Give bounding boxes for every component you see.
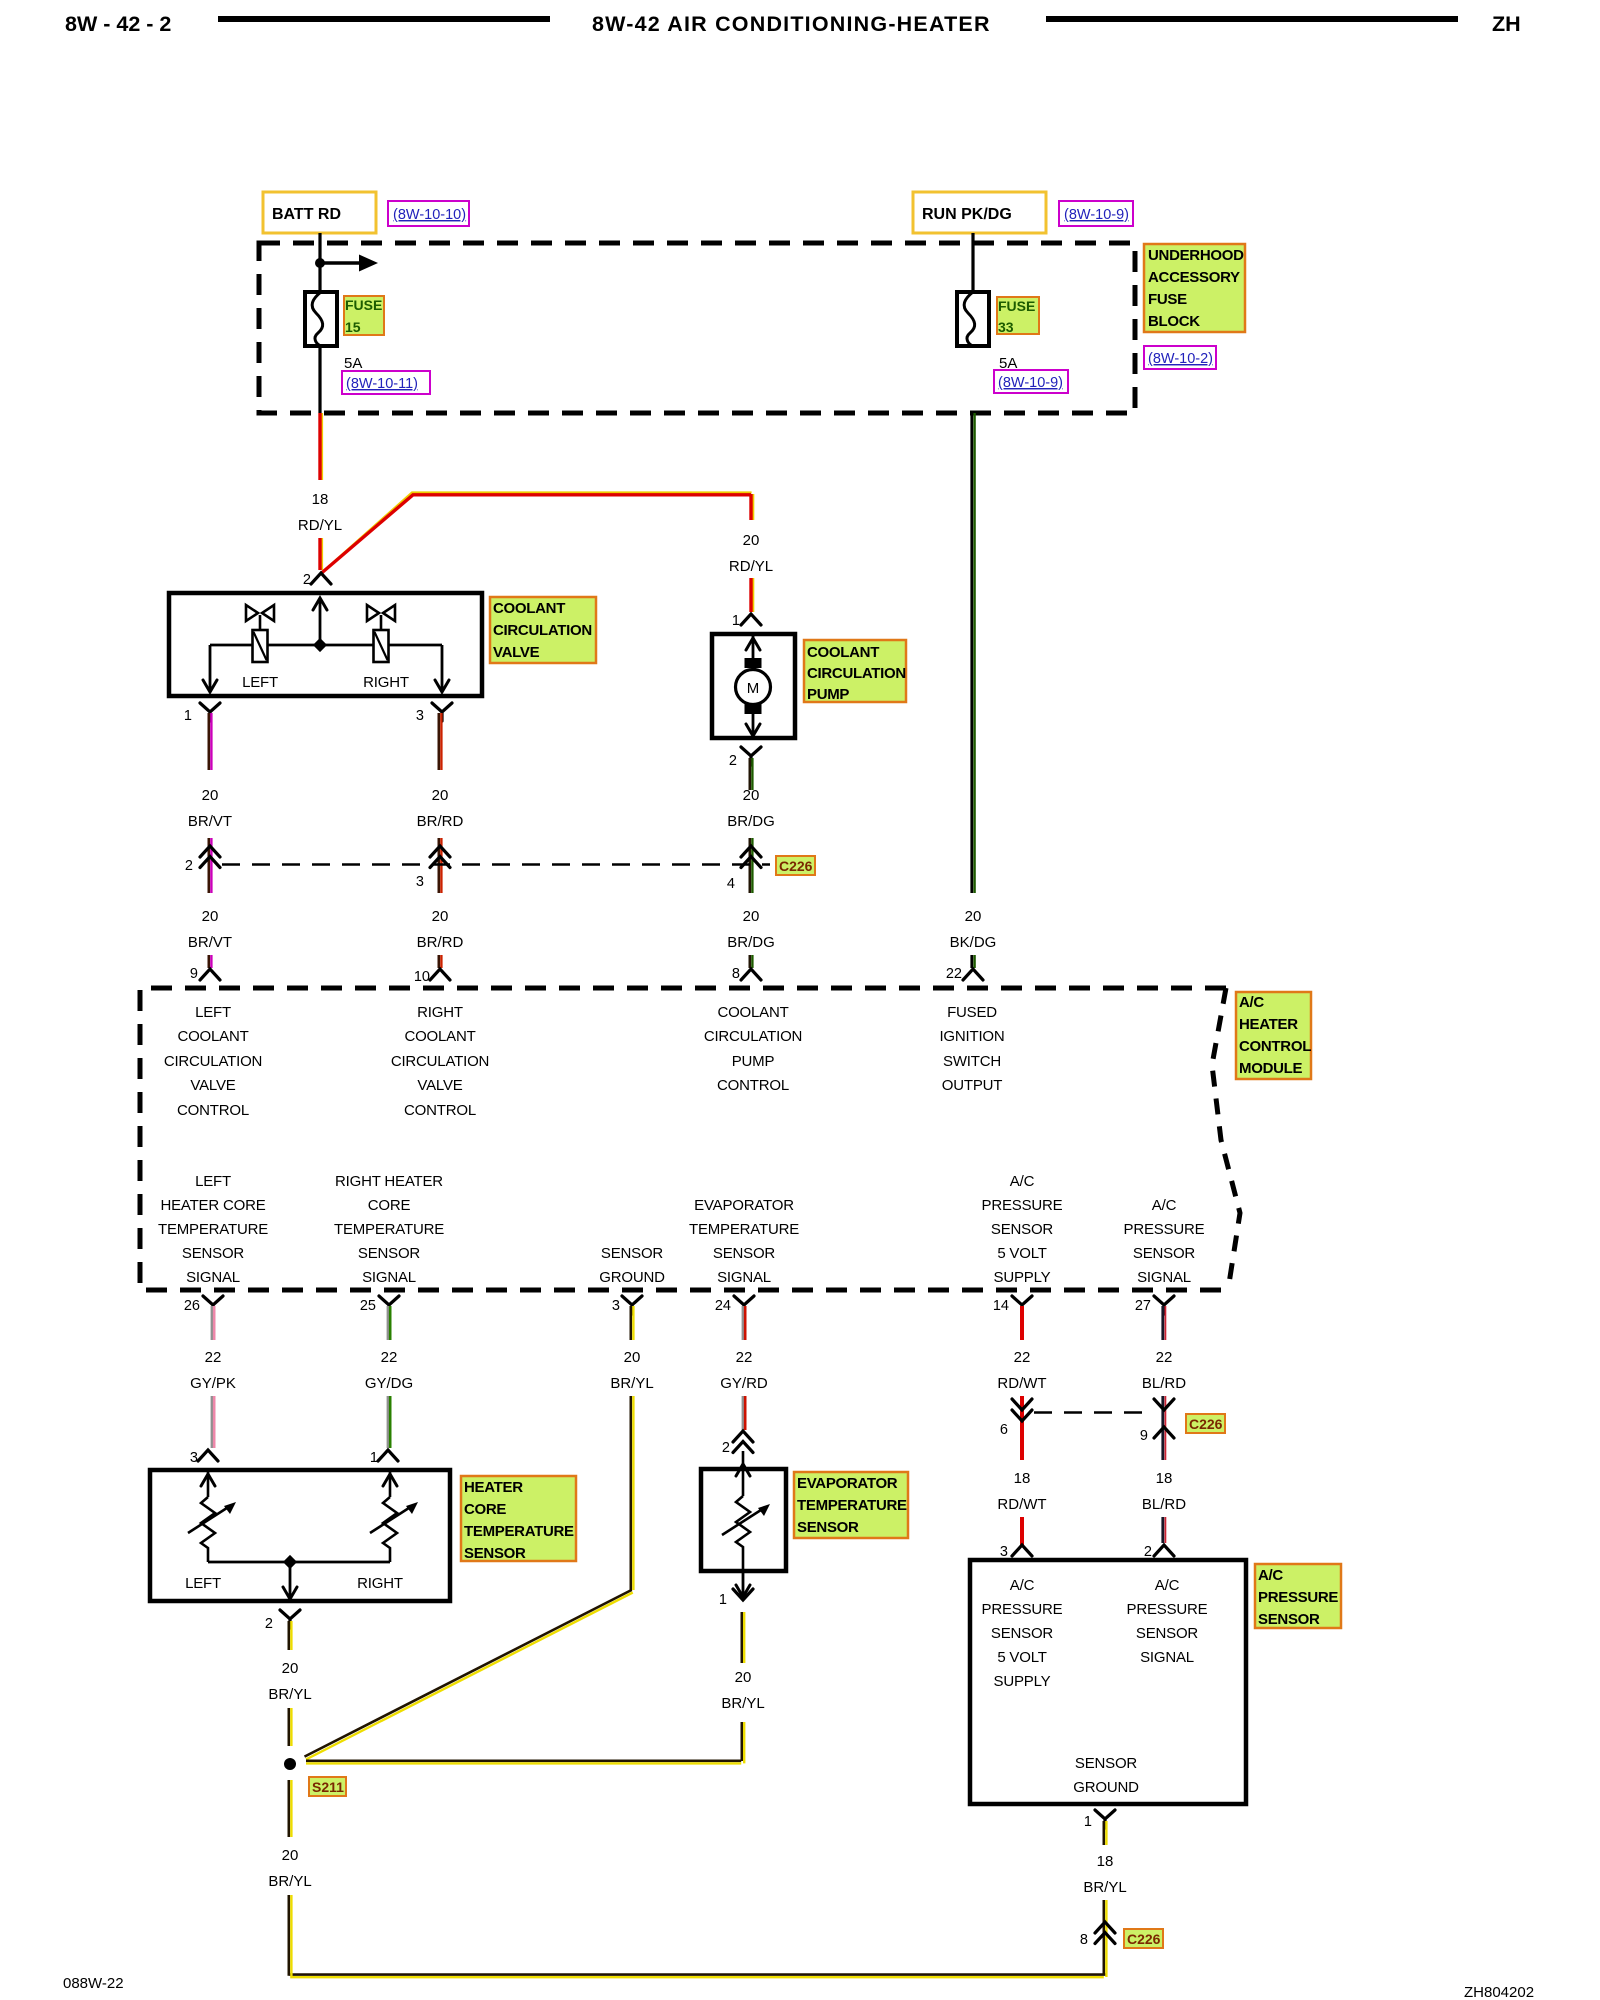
svg-text:20: 20 xyxy=(202,787,219,804)
svg-text:BR/DG: BR/DG xyxy=(727,934,775,951)
svg-text:15: 15 xyxy=(345,319,361,335)
svg-text:1: 1 xyxy=(184,708,192,724)
svg-text:FUSE: FUSE xyxy=(998,298,1035,314)
connector C226 pin 6 xyxy=(1000,1399,1032,1438)
svg-text:SENSOR: SENSOR xyxy=(1075,1755,1138,1772)
connector C226 pin 3 xyxy=(416,846,450,890)
pin 2 pump connector xyxy=(729,747,761,769)
link (8W-10-2) xyxy=(1144,346,1216,369)
label FUSE 33 xyxy=(997,297,1039,335)
svg-text:ZH: ZH xyxy=(1492,12,1521,36)
svg-text:BR/RD: BR/RD xyxy=(417,934,464,951)
label C226 pin 8 xyxy=(1124,1929,1163,1948)
svg-text:1: 1 xyxy=(719,1592,727,1608)
svg-text:RIGHT: RIGHT xyxy=(417,1004,463,1021)
svg-text:33: 33 xyxy=(998,319,1014,335)
svg-text:SENSOR: SENSOR xyxy=(358,1245,421,1262)
svg-text:CIRCULATION: CIRCULATION xyxy=(704,1028,802,1045)
svg-text:PRESSURE: PRESSURE xyxy=(1127,1601,1208,1618)
heater sensor left resistor xyxy=(188,1470,236,1562)
module pin text col4 bottom xyxy=(689,1197,799,1286)
svg-text:SIGNAL: SIGNAL xyxy=(362,1269,416,1286)
fuse F33 xyxy=(957,292,989,346)
svg-text:BR/RD: BR/RD xyxy=(417,813,464,830)
svg-text:LEFT: LEFT xyxy=(195,1004,231,1021)
label EVAPORATOR TEMPERATURE SENSOR xyxy=(794,1472,908,1538)
svg-text:CIRCULATION: CIRCULATION xyxy=(807,665,906,682)
svg-text:FUSED: FUSED xyxy=(947,1004,997,1021)
pin 1 pump connector xyxy=(732,613,761,629)
svg-text:8: 8 xyxy=(1080,1932,1088,1948)
module pin text col1 top xyxy=(164,1004,262,1119)
svg-text:RD/YL: RD/YL xyxy=(729,558,773,575)
heater sensor internal wiring xyxy=(208,1555,390,1599)
label 20 BR/RD xyxy=(417,787,464,830)
svg-text:EVAPORATOR: EVAPORATOR xyxy=(694,1197,794,1214)
pin 10 module connector xyxy=(414,969,450,985)
module pin text col3 bottom xyxy=(599,1245,665,1286)
svg-text:BR/YL: BR/YL xyxy=(721,1695,764,1712)
pin 24 module connector xyxy=(715,1296,754,1314)
svg-text:2: 2 xyxy=(185,858,193,874)
svg-text:20: 20 xyxy=(432,787,449,804)
svg-text:OUTPUT: OUTPUT xyxy=(942,1077,1003,1094)
wire 20 BR/YL splice to bottom xyxy=(268,1780,1106,1977)
pin 3 module connector xyxy=(612,1296,642,1314)
svg-text:EVAPORATOR: EVAPORATOR xyxy=(797,1475,898,1492)
svg-text:COOLANT: COOLANT xyxy=(177,1028,248,1045)
svg-text:18: 18 xyxy=(1014,1470,1031,1487)
module pin text col3 top xyxy=(704,1004,802,1094)
svg-text:20: 20 xyxy=(965,908,982,925)
connector C226 pin 8 xyxy=(1080,1922,1115,1948)
svg-text:BL/RD: BL/RD xyxy=(1142,1375,1186,1392)
wire 22 GY/DG xyxy=(365,1306,413,1448)
svg-text:18: 18 xyxy=(1097,1853,1114,1870)
wire 20 RD/YL branch to pump xyxy=(321,493,753,613)
svg-text:SENSOR: SENSOR xyxy=(601,1245,664,1262)
svg-text:COOLANT: COOLANT xyxy=(717,1004,788,1021)
svg-text:HEATER: HEATER xyxy=(1239,1016,1298,1033)
wire 20 BR/DG upper xyxy=(750,758,753,893)
svg-text:4: 4 xyxy=(727,876,735,892)
wire 22 RD/WT upper xyxy=(997,1306,1046,1437)
pin 1 pressure sensor connector xyxy=(1084,1810,1115,1830)
svg-text:ACCESSORY: ACCESSORY xyxy=(1148,269,1240,286)
svg-text:S211: S211 xyxy=(312,1779,344,1795)
svg-text:RIGHT: RIGHT xyxy=(363,674,409,691)
svg-text:SUPPLY: SUPPLY xyxy=(994,1673,1051,1690)
heater sensor right resistor xyxy=(370,1470,418,1562)
wire branch arrow xyxy=(320,255,378,272)
svg-text:SENSOR: SENSOR xyxy=(182,1245,245,1262)
svg-text:UNDERHOOD: UNDERHOOD xyxy=(1148,247,1244,264)
label A/C PRESSURE SENSOR xyxy=(1255,1564,1341,1628)
svg-text:RIGHT: RIGHT xyxy=(357,1575,403,1592)
svg-text:SENSOR: SENSOR xyxy=(797,1519,859,1536)
connector C226 pin 4 xyxy=(727,846,761,892)
svg-text:SIGNAL: SIGNAL xyxy=(1137,1269,1191,1286)
wire 20 BR/YL sensor ground xyxy=(305,1306,654,1759)
link (8W-10-9) fuse 33 xyxy=(994,370,1068,393)
svg-text:RD/WT: RD/WT xyxy=(997,1496,1046,1513)
pressure sensor text ground xyxy=(1073,1755,1139,1796)
label HEATER CORE TEMPERATURE SENSOR xyxy=(461,1476,576,1562)
wire 20 BR/YL heater to splice xyxy=(268,1621,311,1746)
svg-text:TEMPERATURE: TEMPERATURE xyxy=(797,1497,907,1514)
svg-text:22: 22 xyxy=(946,966,962,982)
svg-text:BR/DG: BR/DG xyxy=(727,813,775,830)
label COOLANT CIRCULATION PUMP xyxy=(804,640,906,703)
svg-text:GROUND: GROUND xyxy=(1073,1779,1139,1796)
svg-text:(8W-10-10): (8W-10-10) xyxy=(393,207,466,223)
svg-text:9: 9 xyxy=(190,966,198,982)
svg-text:COOLANT: COOLANT xyxy=(493,600,565,617)
pin 1 valve connector xyxy=(184,703,220,724)
pin 2 evaporator connector xyxy=(722,1431,753,1456)
evaporator resistor xyxy=(722,1451,770,1571)
pin 25 module connector xyxy=(360,1296,399,1314)
splice S211 xyxy=(284,1758,346,1796)
svg-text:SIGNAL: SIGNAL xyxy=(717,1269,771,1286)
svg-text:5A: 5A xyxy=(344,355,362,372)
svg-text:6: 6 xyxy=(1000,1422,1008,1438)
svg-text:8: 8 xyxy=(732,966,740,982)
label 20 BR/VT xyxy=(188,787,232,830)
svg-text:(8W-10-2): (8W-10-2) xyxy=(1148,351,1213,367)
valve RIGHT symbol xyxy=(367,605,395,662)
svg-text:TEMPERATURE: TEMPERATURE xyxy=(689,1221,799,1238)
svg-text:A/C: A/C xyxy=(1155,1577,1180,1594)
svg-text:8W-42 AIR CONDITIONING-HEATER: 8W-42 AIR CONDITIONING-HEATER xyxy=(592,12,991,36)
header rule right xyxy=(1046,16,1458,22)
svg-text:22: 22 xyxy=(205,1349,222,1366)
svg-text:GROUND: GROUND xyxy=(599,1269,665,1286)
label A/C HEATER CONTROL MODULE xyxy=(1236,992,1311,1079)
svg-text:SENSOR: SENSOR xyxy=(464,1545,526,1562)
svg-text:SENSOR: SENSOR xyxy=(713,1245,776,1262)
svg-text:3: 3 xyxy=(416,708,424,724)
pin 26 module connector xyxy=(184,1296,223,1314)
svg-text:20: 20 xyxy=(202,908,219,925)
wire 22 GY/PK xyxy=(190,1306,236,1448)
svg-text:2: 2 xyxy=(722,1440,730,1456)
heater core temperature sensor box xyxy=(150,1470,450,1601)
coolant circulation valve box xyxy=(169,593,482,696)
wire BATT RD feed xyxy=(318,233,321,292)
label C226 row2 xyxy=(1186,1414,1225,1433)
svg-text:BR/YL: BR/YL xyxy=(268,1873,311,1890)
wire 20 BR/DG lower xyxy=(727,908,775,968)
svg-text:3: 3 xyxy=(190,1450,198,1466)
svg-text:CONTROL: CONTROL xyxy=(1239,1038,1311,1055)
svg-text:PUMP: PUMP xyxy=(732,1053,775,1070)
svg-text:SENSOR: SENSOR xyxy=(1258,1611,1320,1628)
pin 2 valve connector xyxy=(303,572,331,588)
svg-text:C226: C226 xyxy=(1127,1931,1161,1947)
svg-text:PRESSURE: PRESSURE xyxy=(1124,1221,1205,1238)
pin 27 module connector xyxy=(1135,1296,1174,1314)
svg-text:TEMPERATURE: TEMPERATURE xyxy=(464,1523,574,1540)
svg-text:3: 3 xyxy=(416,874,424,890)
svg-text:14: 14 xyxy=(993,1298,1009,1314)
svg-text:GY/PK: GY/PK xyxy=(190,1375,236,1392)
svg-text:25: 25 xyxy=(360,1298,376,1314)
svg-text:BR/VT: BR/VT xyxy=(188,934,232,951)
wire fuse 15 lower lead xyxy=(318,346,321,413)
wire 20 BR/RD upper xyxy=(439,713,442,893)
svg-text:PRESSURE: PRESSURE xyxy=(982,1197,1063,1214)
svg-text:SIGNAL: SIGNAL xyxy=(1140,1649,1194,1666)
svg-text:20: 20 xyxy=(282,1660,299,1677)
svg-text:HEATER: HEATER xyxy=(464,1479,523,1496)
svg-text:1: 1 xyxy=(732,613,740,629)
svg-text:MODULE: MODULE xyxy=(1239,1060,1302,1077)
valve internal wiring xyxy=(203,598,449,692)
svg-text:20: 20 xyxy=(735,1669,752,1686)
pin 3 heater sensor connector xyxy=(190,1450,218,1466)
svg-text:SENSOR: SENSOR xyxy=(1136,1625,1199,1642)
svg-text:9: 9 xyxy=(1140,1428,1148,1444)
svg-text:24: 24 xyxy=(715,1298,731,1314)
wire 18 BR/YL pressure sensor ground xyxy=(1083,1821,1126,1944)
fuse F15 xyxy=(305,292,337,346)
svg-text:VALVE: VALVE xyxy=(493,644,540,661)
svg-text:1: 1 xyxy=(370,1450,378,1466)
svg-text:CORE: CORE xyxy=(464,1501,506,1518)
svg-text:BR/VT: BR/VT xyxy=(188,813,232,830)
pin 22 module connector xyxy=(946,966,983,982)
motor M1 xyxy=(736,634,771,738)
pressure sensor text col1 xyxy=(982,1577,1063,1690)
wire 22 GY/RD xyxy=(720,1306,768,1430)
svg-text:BATT RD: BATT RD xyxy=(272,206,341,223)
svg-text:18: 18 xyxy=(1156,1470,1173,1487)
label FUSE 15 xyxy=(344,296,384,335)
connector C226 pin 2 xyxy=(185,846,220,874)
pressure sensor text col2 xyxy=(1127,1577,1208,1666)
svg-text:088W-22: 088W-22 xyxy=(63,1975,124,1992)
node BATT RD xyxy=(263,192,376,233)
svg-text:BR/YL: BR/YL xyxy=(610,1375,653,1392)
svg-text:LEFT: LEFT xyxy=(195,1173,231,1190)
svg-text:BLOCK: BLOCK xyxy=(1148,313,1200,330)
svg-text:VALVE: VALVE xyxy=(417,1077,462,1094)
pin 9 module connector xyxy=(190,966,220,982)
wire 18 BL/RD lower xyxy=(1142,1437,1186,1543)
svg-text:GY/DG: GY/DG xyxy=(365,1375,413,1392)
svg-text:PRESSURE: PRESSURE xyxy=(982,1601,1063,1618)
connector C226 dashed line row1 xyxy=(222,863,770,866)
svg-text:RD/YL: RD/YL xyxy=(298,517,342,534)
pin 3 pressure sensor connector xyxy=(1000,1544,1032,1560)
header rule left xyxy=(218,16,550,22)
pin 14 module connector xyxy=(993,1296,1032,1314)
wire RUN PK/DG feed xyxy=(971,233,974,292)
svg-text:BR/YL: BR/YL xyxy=(268,1686,311,1703)
node junction dot xyxy=(315,258,325,268)
svg-text:RIGHT HEATER: RIGHT HEATER xyxy=(335,1173,443,1190)
svg-text:5 VOLT: 5 VOLT xyxy=(997,1649,1046,1666)
node RUN PK/DG xyxy=(913,192,1046,233)
svg-text:BL/RD: BL/RD xyxy=(1142,1496,1186,1513)
svg-text:22: 22 xyxy=(736,1349,753,1366)
label UNDERHOOD ACCESSORY FUSE BLOCK xyxy=(1144,244,1245,332)
wire 20 BR/YL evaporator xyxy=(306,1612,765,1763)
svg-text:FUSE: FUSE xyxy=(1148,291,1187,308)
svg-text:22: 22 xyxy=(1156,1349,1173,1366)
module pin text col2 top xyxy=(391,1004,489,1119)
svg-text:M: M xyxy=(747,680,760,697)
pin 8 module connector xyxy=(732,966,761,982)
svg-text:20: 20 xyxy=(624,1349,641,1366)
svg-text:HEATER CORE: HEATER CORE xyxy=(160,1197,265,1214)
link (8W-10-10) xyxy=(388,201,469,226)
module pin text col6 bottom xyxy=(1124,1197,1205,1286)
svg-text:8W - 42 - 2: 8W - 42 - 2 xyxy=(65,12,171,36)
wire 20 BR/VT lower xyxy=(188,908,232,968)
svg-text:2: 2 xyxy=(1144,1544,1152,1560)
svg-text:3: 3 xyxy=(612,1298,620,1314)
A/C heater control module dashed box xyxy=(140,988,1240,1290)
svg-text:22: 22 xyxy=(1014,1349,1031,1366)
pin 2 pressure sensor connector xyxy=(1144,1544,1174,1560)
svg-text:PUMP: PUMP xyxy=(807,686,849,703)
svg-text:A/C: A/C xyxy=(1239,994,1264,1011)
svg-text:CIRCULATION: CIRCULATION xyxy=(493,622,592,639)
svg-text:IGNITION: IGNITION xyxy=(939,1028,1004,1045)
svg-text:A/C: A/C xyxy=(1010,1173,1035,1190)
wire 20 BR/RD lower xyxy=(417,908,464,968)
wire 18 RD/WT lower xyxy=(997,1437,1046,1545)
pin 2 heater sensor connector xyxy=(265,1610,300,1632)
pin 1 evaporator connector xyxy=(719,1571,753,1608)
svg-text:SIGNAL: SIGNAL xyxy=(186,1269,240,1286)
link (8W-10-9) xyxy=(1059,201,1133,226)
svg-text:18: 18 xyxy=(312,491,329,508)
svg-text:C226: C226 xyxy=(779,858,813,874)
svg-text:20: 20 xyxy=(282,1847,299,1864)
valve LEFT symbol xyxy=(246,605,274,662)
label C226 row1 xyxy=(776,856,815,875)
svg-text:22: 22 xyxy=(381,1349,398,1366)
svg-text:10: 10 xyxy=(414,969,430,985)
label 18 RD/YL xyxy=(298,491,342,534)
module pin text col5 bottom xyxy=(982,1173,1063,1286)
evaporator temperature sensor box xyxy=(701,1469,786,1571)
svg-text:RD/WT: RD/WT xyxy=(997,1375,1046,1392)
module pin text col4 top xyxy=(939,1004,1004,1094)
svg-text:20: 20 xyxy=(743,908,760,925)
svg-text:CORE: CORE xyxy=(368,1197,411,1214)
svg-text:C226: C226 xyxy=(1189,1416,1223,1432)
module pin text col2 bottom xyxy=(334,1173,444,1286)
svg-text:PRESSURE: PRESSURE xyxy=(1258,1589,1338,1606)
a/c pressure sensor box xyxy=(970,1560,1246,1804)
svg-text:BR/YL: BR/YL xyxy=(1083,1879,1126,1896)
svg-text:20: 20 xyxy=(743,532,760,549)
svg-text:CONTROL: CONTROL xyxy=(404,1102,476,1119)
svg-text:SENSOR: SENSOR xyxy=(1133,1245,1196,1262)
connector C226 dashed line row2 xyxy=(1034,1411,1152,1414)
svg-text:26: 26 xyxy=(184,1298,200,1314)
svg-text:TEMPERATURE: TEMPERATURE xyxy=(158,1221,268,1238)
label COOLANT CIRCULATION VALVE xyxy=(490,597,596,663)
svg-text:5 VOLT: 5 VOLT xyxy=(997,1245,1046,1262)
svg-text:2: 2 xyxy=(303,572,311,588)
svg-text:2: 2 xyxy=(265,1616,273,1632)
svg-text:A/C: A/C xyxy=(1010,1577,1035,1594)
svg-text:VALVE: VALVE xyxy=(190,1077,235,1094)
svg-text:20: 20 xyxy=(743,787,760,804)
pin 1 heater sensor connector xyxy=(370,1450,398,1466)
svg-text:CONTROL: CONTROL xyxy=(177,1102,249,1119)
connector C226 pin 9 xyxy=(1140,1399,1174,1444)
svg-text:A/C: A/C xyxy=(1258,1567,1283,1584)
svg-text:3: 3 xyxy=(1000,1544,1008,1560)
svg-text:20: 20 xyxy=(432,908,449,925)
svg-text:27: 27 xyxy=(1135,1298,1151,1314)
wire 20 BK/DG run feed xyxy=(950,413,997,968)
svg-text:A/C: A/C xyxy=(1152,1197,1177,1214)
svg-text:LEFT: LEFT xyxy=(185,1575,221,1592)
svg-text:SWITCH: SWITCH xyxy=(943,1053,1001,1070)
svg-text:TEMPERATURE: TEMPERATURE xyxy=(334,1221,444,1238)
svg-text:ZH804202: ZH804202 xyxy=(1464,1984,1534,2000)
svg-text:(8W-10-11): (8W-10-11) xyxy=(346,376,418,392)
wire 22 BL/RD upper xyxy=(1142,1306,1186,1437)
svg-text:RUN PK/DG: RUN PK/DG xyxy=(922,206,1012,223)
svg-text:SUPPLY: SUPPLY xyxy=(994,1269,1051,1286)
wire 20 BR/VT upper xyxy=(209,713,212,893)
svg-text:CONTROL: CONTROL xyxy=(717,1077,789,1094)
svg-text:COOLANT: COOLANT xyxy=(404,1028,475,1045)
svg-text:1: 1 xyxy=(1084,1814,1092,1830)
svg-text:FUSE: FUSE xyxy=(345,297,382,313)
wire 18 RD/YL fuse 15 to valve xyxy=(320,413,322,570)
svg-text:SENSOR: SENSOR xyxy=(991,1625,1054,1642)
pin 3 valve connector xyxy=(416,703,452,724)
svg-text:GY/RD: GY/RD xyxy=(720,1375,768,1392)
underhood accessory fuse block dashed box xyxy=(259,243,1135,413)
svg-text:SENSOR: SENSOR xyxy=(991,1221,1054,1238)
svg-text:COOLANT: COOLANT xyxy=(807,644,879,661)
svg-text:CIRCULATION: CIRCULATION xyxy=(391,1053,489,1070)
svg-text:LEFT: LEFT xyxy=(242,674,278,691)
label 20 BR/DG xyxy=(727,787,775,830)
svg-text:2: 2 xyxy=(729,753,737,769)
svg-text:CIRCULATION: CIRCULATION xyxy=(164,1053,262,1070)
svg-text:(8W-10-9): (8W-10-9) xyxy=(998,375,1063,391)
module pin text col1 bottom xyxy=(158,1173,268,1286)
label 20 RD/YL xyxy=(729,532,773,575)
coolant circulation pump box xyxy=(712,634,795,738)
link (8W-10-11) xyxy=(342,371,430,394)
svg-text:(8W-10-9): (8W-10-9) xyxy=(1064,207,1129,223)
svg-text:BK/DG: BK/DG xyxy=(950,934,997,951)
